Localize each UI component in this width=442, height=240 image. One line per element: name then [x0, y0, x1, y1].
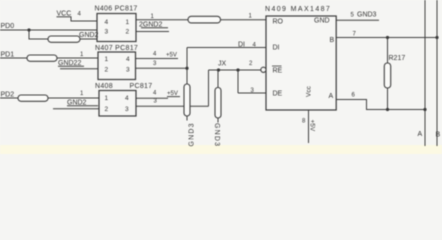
- svg-text:3: 3: [125, 106, 129, 113]
- svg-text:GND22: GND22: [58, 60, 81, 67]
- wire GND2 label underline (N08 pin2): [67, 105, 98, 107]
- junction B wire to bus B: [435, 36, 438, 39]
- wire +5V label underline (N08): [167, 96, 180, 98]
- svg-text:3: 3: [105, 29, 109, 36]
- RE inverting bubble on N09: [261, 67, 266, 72]
- wire DE pin of N09: [238, 92, 266, 94]
- svg-text:B: B: [436, 132, 441, 139]
- svg-text:GND2: GND2: [67, 100, 87, 107]
- svg-text:4: 4: [126, 56, 130, 63]
- wire JX pulldown resistor top lead: [217, 70, 219, 88]
- svg-text:2: 2: [105, 67, 109, 74]
- svg-text:N409 MAX1487: N409 MAX1487: [265, 6, 331, 13]
- wire N06 pin2 GND2: [136, 31, 169, 33]
- wire PD0: [0, 29, 97, 31]
- svg-text:+5V: +5V: [309, 120, 316, 132]
- wire N07 pin2 GND22: [60, 68, 98, 70]
- bus line B: [436, 0, 438, 146]
- junction on PD0 branch: [27, 28, 30, 31]
- svg-text:1: 1: [105, 56, 109, 63]
- wire JX net vertical riser: [208, 70, 210, 106]
- svg-text:2: 2: [105, 106, 109, 113]
- wire N08 pin2 GND2: [53, 108, 99, 110]
- junction DI net: [185, 67, 188, 70]
- wire RE-DE tie vertical: [237, 70, 239, 93]
- resistor (PD2 series, horizontal): [18, 95, 48, 101]
- svg-text:N406 PC817: N406 PC817: [95, 6, 138, 13]
- optocoupler N07 PC817 box: [98, 52, 136, 80]
- svg-text:GND3: GND3: [213, 123, 220, 147]
- wire A pin of N09 jog: [336, 100, 425, 110]
- svg-text:VCC: VCC: [57, 11, 72, 18]
- svg-text:GND3: GND3: [357, 12, 377, 19]
- svg-text:DI: DI: [273, 45, 280, 52]
- svg-text:A: A: [329, 93, 334, 100]
- junction JX pulldown: [217, 68, 220, 71]
- junction RE-DE tie: [236, 68, 239, 71]
- svg-text:Vcc: Vcc: [306, 85, 313, 97]
- svg-text:DI: DI: [238, 41, 245, 48]
- wire DI net vertical riser: [186, 48, 188, 69]
- svg-text:PD0: PD0: [1, 23, 15, 30]
- junction A wire to bus A: [423, 108, 426, 111]
- svg-text:+5V: +5V: [166, 53, 177, 59]
- svg-text:GND: GND: [314, 18, 330, 25]
- svg-text:1: 1: [126, 19, 130, 26]
- wire GND22 label underline (N07 pin2): [58, 65, 84, 67]
- wire JX pulldown resistor bottom lead to GND3: [217, 118, 219, 123]
- svg-text:GND3: GND3: [189, 122, 196, 146]
- svg-text:A: A: [418, 131, 423, 138]
- optocoupler N06 PC817 box: [97, 14, 136, 42]
- wire PD0 pulldown branch vertical: [29, 30, 97, 39]
- svg-text:PD1: PD1: [1, 52, 15, 59]
- svg-text:R217: R217: [389, 55, 406, 62]
- svg-text:2GND2: 2GND2: [139, 22, 162, 29]
- wire N06 pin1 to RO of N09: [136, 19, 266, 21]
- resistor (DI pulldown, vertical): [184, 84, 190, 116]
- wire R217 bottom lead: [387, 88, 389, 110]
- svg-text:JX: JX: [218, 61, 227, 68]
- svg-text:PC817: PC817: [130, 83, 153, 90]
- bottom cream strip: [0, 145, 442, 154]
- wire VCC stub to pin 4: [71, 17, 97, 21]
- wire DI net to DI pin of N09: [187, 47, 266, 49]
- resistor (N06 pin1 to RO series, horizontal): [188, 16, 221, 23]
- wire N08 pin4 to +5V: [136, 97, 168, 99]
- wire DI pulldown resistor bottom lead to GND3: [186, 116, 188, 121]
- svg-text:N408: N408: [95, 83, 113, 90]
- RE overline: [272, 65, 282, 67]
- svg-text:4: 4: [105, 19, 109, 26]
- resistor (JX pulldown, vertical): [215, 88, 221, 119]
- svg-text:+5V: +5V: [167, 91, 178, 97]
- wire N08 pin3 (JX net horizontal): [136, 105, 209, 107]
- svg-text:RO: RO: [273, 18, 284, 25]
- wire N07 pin4 to +5V: [136, 58, 179, 60]
- wire PD1 to N07 pin1: [0, 57, 98, 59]
- optocoupler N08 PC817 box: [99, 91, 136, 117]
- wire GND pin of N09 to GND3 label: [336, 19, 379, 21]
- svg-text:B: B: [330, 37, 335, 44]
- wire VCC pin 8 of N09 to +5V: [308, 110, 310, 143]
- junction R217 top on B wire: [386, 36, 389, 39]
- svg-text:DE: DE: [273, 91, 283, 98]
- wire B pin of N09 to bus B: [336, 37, 437, 39]
- svg-text:GND2: GND2: [79, 32, 99, 39]
- svg-text:N407 PC817: N407 PC817: [95, 45, 138, 52]
- junction R217 bottom on A wire: [386, 108, 389, 111]
- svg-text:RE: RE: [273, 68, 283, 75]
- svg-text:4: 4: [125, 95, 129, 102]
- wire DI pulldown resistor top lead: [186, 68, 188, 84]
- wire GND2 label underline (N06 pin2): [141, 27, 168, 29]
- resistor (PD1 series, horizontal): [27, 55, 57, 61]
- resistor R217 (vertical): [384, 63, 390, 88]
- svg-text:3: 3: [126, 67, 130, 74]
- svg-text:2: 2: [126, 29, 130, 36]
- wire JX net to RE bubble of N09: [209, 69, 262, 71]
- wire R217 top lead: [387, 38, 389, 64]
- resistor R (PD0 pulldown, horizontal): [48, 36, 80, 42]
- wire N07 pin3 (DI net horizontal): [136, 67, 188, 69]
- bus line A: [424, 0, 426, 146]
- wire PD2 to N08 pin1: [0, 97, 99, 99]
- svg-text:PD2: PD2: [1, 92, 15, 99]
- wire VCC label underline: [57, 16, 72, 18]
- op-amp chip N09 MAX1487 box: [266, 16, 336, 110]
- svg-text:1: 1: [105, 95, 109, 102]
